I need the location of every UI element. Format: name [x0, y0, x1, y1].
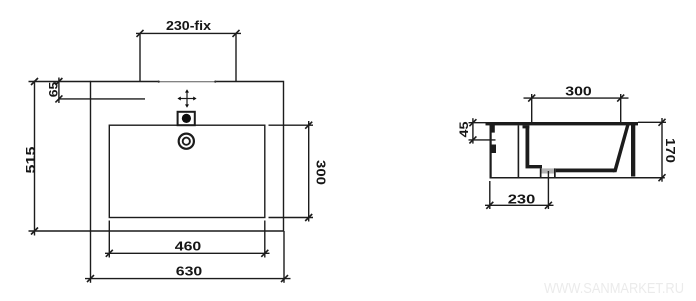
faucet hole square: [178, 112, 195, 125]
basin rim lip corner: [523, 125, 530, 128]
section left wall: [490, 122, 492, 178]
dimension 45: [469, 118, 496, 143]
svg-text:65: 65: [49, 81, 61, 97]
sink outer rim rectangle (top view): [91, 82, 284, 232]
drain body (grey): [542, 168, 555, 173]
drain outer circle: [179, 134, 194, 149]
dimension 170: [638, 118, 666, 182]
dimension 515: [29, 78, 91, 236]
svg-text:300: 300: [565, 84, 592, 99]
left wall mounting tab upper: [490, 122, 495, 133]
basin inner rectangle (top view): [109, 125, 264, 217]
left wall mounting tab lower: [490, 145, 496, 154]
faucet centre crosshair: [180, 92, 195, 106]
drain left flange: [540, 168, 542, 177]
svg-text:630: 630: [176, 264, 203, 279]
svg-text:460: 460: [175, 239, 202, 254]
sink back edge slot segment: [159, 81, 215, 83]
svg-text:45: 45: [459, 121, 471, 138]
drain pipe / extension line down: [547, 171, 549, 209]
pedestal inner wall line: [518, 125, 520, 177]
svg-text:170: 170: [663, 138, 678, 163]
dimension 300 (top view): [269, 121, 314, 222]
dimension 230 (section): [485, 181, 554, 209]
svg-text:WWW.SANMARKET.RU: WWW.SANMARKET.RU: [544, 280, 684, 297]
dimension 65: [55, 78, 145, 104]
faucet hole filled circle: [182, 114, 191, 123]
section top rim (thick): [486, 122, 639, 125]
dimension 300 (section): [524, 94, 629, 123]
basin bottom left segment (thick): [526, 165, 543, 168]
svg-text:515: 515: [23, 147, 38, 174]
dimension 630: [85, 231, 291, 283]
svg-text:300: 300: [314, 160, 329, 185]
section bottom line: [490, 177, 665, 179]
section right outer wall (thick): [631, 122, 635, 177]
drain right flange: [554, 168, 556, 177]
basin right inner slanted wall (thick): [613, 125, 630, 173]
svg-text:230-fix: 230-fix: [166, 18, 212, 33]
basin bottom right segment (thick): [556, 169, 615, 173]
basin left wall (thick): [526, 125, 530, 166]
dimension 460: [105, 221, 270, 258]
drain inner circle: [183, 138, 190, 145]
dimension 230-fix: [136, 30, 241, 82]
svg-text:230: 230: [508, 192, 536, 207]
